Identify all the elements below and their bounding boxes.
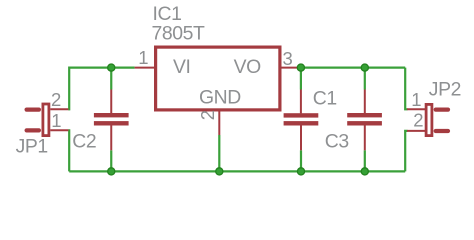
wire: C3 bottom lead (green) [364,150,366,171]
svg-text:2: 2 [197,110,218,120]
svg-text:1: 1 [51,110,61,131]
svg-text:3: 3 [283,48,293,69]
junction dot at C2 / top rail [108,64,115,71]
svg-text:C2: C2 [72,131,96,153]
wire: C1 top lead (green) [300,68,302,90]
svg-text:1: 1 [138,47,148,68]
wire: C1 bottom lead (green) [300,150,302,171]
junction dot at GND pin / bottom rail [216,168,223,175]
svg-text:VO: VO [234,56,262,78]
junction dot at C3 / bottom rail [361,168,368,175]
connector JP1 [25,104,69,136]
wire: JP1 pin1 down to bottom rail [68,130,69,171]
wire: JP1 pin2 up to top-left rail across to IC pin1 [68,68,134,110]
junction dot at C2 / bottom rail [108,168,115,175]
wire: IC GND pin to bottom rail (green part) [218,135,220,171]
svg-text:VI: VI [173,56,191,78]
wire: C3 top lead (green) [364,68,366,90]
capacitor C1 [284,90,319,151]
svg-text:GND: GND [199,86,241,108]
IC1 pin 3 stub (VO) [281,67,301,69]
svg-text:7805T: 7805T [152,23,206,45]
IC1 pin 1 stub (VI) [135,67,155,69]
wire: down to JP2 pin1 [405,68,407,110]
svg-text:C3: C3 [325,130,349,152]
junction dot at IC pin3 / C1 [297,64,304,71]
svg-text:JP2: JP2 [429,78,461,100]
regulator IC1 body [156,47,280,110]
wire: JP2 pin2 down to bottom rail [405,131,407,172]
junction dot at C3 / top rail [361,64,368,71]
capacitor C2 [94,90,129,151]
connector JP2 [407,104,450,135]
wire: VO rail from IC pin3 junction to right [301,66,405,68]
wire: bottom ground rail [69,170,405,172]
svg-text:C1: C1 [313,87,337,109]
svg-text:2: 2 [413,109,423,130]
svg-text:1: 1 [411,89,421,110]
junction dot at C1 / bottom rail [297,168,304,175]
svg-text:2: 2 [51,89,61,110]
IC1 pin 2 stub (GND, red part) [218,111,220,135]
svg-text:JP1: JP1 [16,135,48,157]
capacitor C3 [347,90,382,151]
wire: C2 bottom lead (green) [110,150,112,171]
wire: C2 top lead (green) [110,68,112,90]
